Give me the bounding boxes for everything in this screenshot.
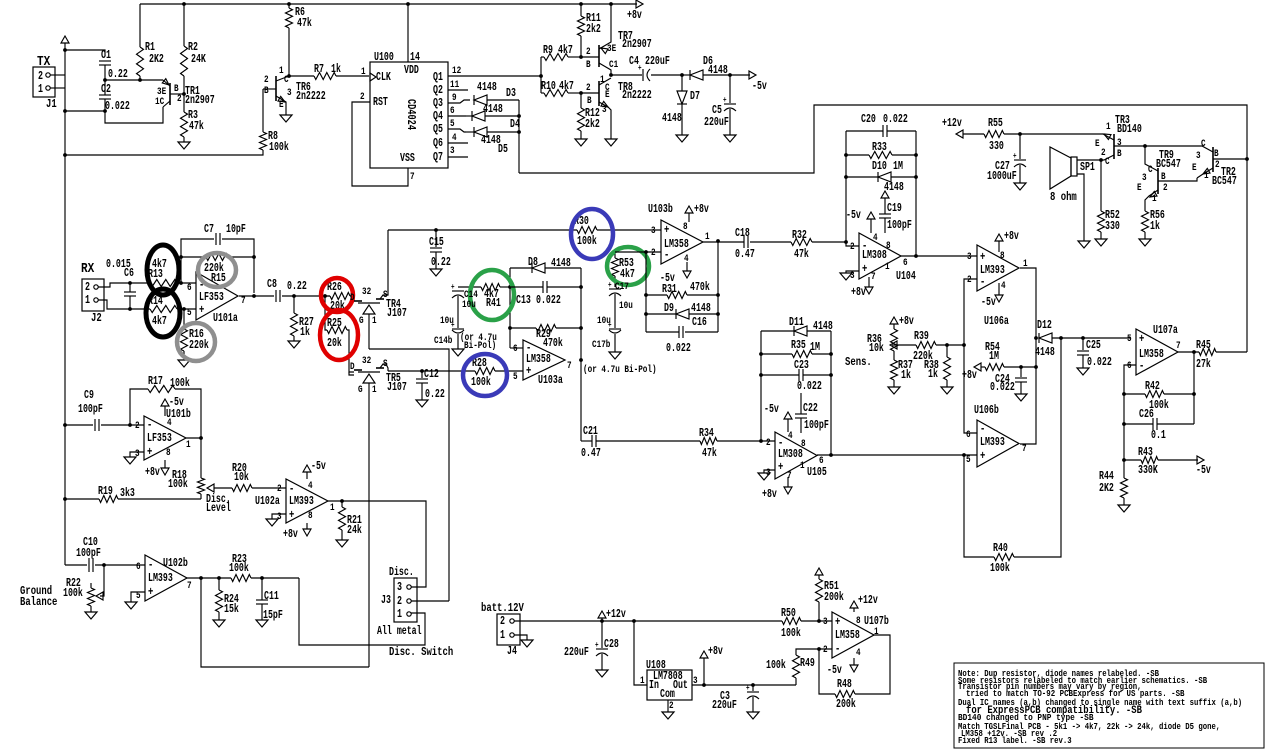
svg-text:3: 3	[967, 251, 972, 263]
junction	[728, 73, 732, 77]
svg-text:C15: C15	[429, 236, 444, 249]
resistor R2	[183, 4, 185, 46]
svg-text:+: +	[526, 364, 531, 378]
svg-text:200k: 200k	[824, 591, 844, 604]
ground C25	[1077, 368, 1089, 375]
potentiometer R18	[198, 478, 205, 494]
svg-text:5: 5	[450, 118, 455, 130]
resistor R16	[183, 309, 185, 329]
svg-text:TX: TX	[37, 55, 51, 70]
svg-text:1: 1	[1106, 121, 1111, 133]
transistor TR5 J107	[349, 372, 354, 375]
svg-text:C: C	[284, 74, 289, 86]
svg-text:1: 1	[85, 294, 90, 307]
svg-text:LM393: LM393	[289, 495, 314, 508]
op-amp U101a LF353	[196, 272, 238, 320]
wire emitter node	[105, 79, 163, 81]
svg-text:J107: J107	[387, 307, 407, 320]
capacitor C2	[99, 94, 111, 96]
svg-text:3: 3	[602, 104, 607, 116]
svg-text:B: B	[1117, 148, 1122, 160]
junction	[579, 358, 583, 362]
svg-text:1k: 1k	[300, 326, 310, 339]
resistor R38	[946, 345, 948, 357]
svg-text:U104: U104	[896, 270, 916, 283]
ground R16	[178, 360, 190, 367]
capacitor C10	[65, 564, 87, 566]
highlight ellipse gray R16	[177, 323, 215, 361]
highlight ellipse green R41	[470, 270, 514, 320]
svg-text:+8v: +8v	[851, 286, 866, 299]
junction	[644, 250, 648, 254]
svg-text:-: -	[289, 482, 294, 496]
ground TR8	[605, 139, 617, 146]
svg-text:1: 1	[38, 83, 43, 96]
svg-text:R32: R32	[792, 229, 807, 242]
svg-text:8: 8	[856, 615, 861, 627]
svg-text:CD4024: CD4024	[404, 99, 417, 130]
ground D7	[676, 135, 688, 142]
power -5v U102a	[306, 472, 308, 479]
op-amp U106a LM393	[977, 245, 1019, 291]
junction	[63, 48, 67, 52]
junction	[962, 343, 966, 347]
junction	[508, 285, 512, 289]
op-amp U107a LM358	[1136, 329, 1178, 375]
svg-text:100k: 100k	[781, 627, 801, 640]
regulator U108 LM7808	[634, 621, 647, 685]
svg-text:4k7: 4k7	[558, 44, 573, 57]
wire RX pin2	[98, 283, 150, 287]
svg-text:4: 4	[856, 647, 861, 659]
diode D7	[681, 75, 683, 91]
diode D10	[846, 176, 878, 178]
svg-text:C28: C28	[604, 638, 619, 651]
feedback rail right U105	[830, 331, 832, 455]
svg-text:U106a: U106a	[984, 315, 1009, 328]
transistor TR4 J107	[354, 300, 362, 302]
feedback rail right U107a	[1193, 352, 1195, 424]
wire U107a out	[1178, 351, 1199, 353]
svg-text:3: 3	[450, 145, 455, 157]
svg-text:R50: R50	[781, 607, 796, 620]
junction	[1245, 157, 1249, 161]
ground U108	[667, 700, 669, 712]
junction	[287, 2, 291, 6]
resistor R6	[288, 4, 290, 8]
resistor R7	[289, 75, 314, 77]
svg-text:+8v: +8v	[1004, 230, 1019, 243]
wire U102a out	[328, 501, 426, 587]
svg-text:batt.12V: batt.12V	[481, 601, 524, 615]
svg-text:3: 3	[823, 616, 828, 628]
svg-text:+: +	[147, 445, 152, 459]
svg-text:100k: 100k	[168, 478, 188, 491]
svg-text:8: 8	[1000, 250, 1005, 262]
svg-text:1: 1	[874, 626, 879, 638]
junction	[103, 109, 107, 113]
junction	[579, 285, 583, 289]
svg-text:+: +	[608, 281, 612, 290]
svg-text:3: 3	[287, 87, 292, 99]
svg-text:2n2222: 2n2222	[622, 89, 652, 102]
junction	[517, 114, 521, 118]
svg-text:1000uF: 1000uF	[987, 170, 1017, 183]
svg-text:4k7: 4k7	[620, 268, 635, 281]
svg-text:C4: C4	[629, 55, 639, 68]
power rail +8v top	[140, 3, 637, 5]
ground R3	[178, 142, 190, 149]
resistor R31	[646, 294, 667, 296]
svg-text:1: 1	[885, 261, 890, 273]
feedback rail right U103b	[717, 241, 719, 332]
svg-text:1: 1	[372, 384, 377, 396]
svg-text:-: -	[148, 558, 153, 572]
ground J4 pin1	[514, 635, 527, 640]
transistor TR3 BD140	[1113, 134, 1115, 159]
svg-text:VDD: VDD	[404, 64, 419, 77]
ground R27	[288, 341, 300, 348]
resistor R29	[510, 327, 536, 329]
svg-text:Bi-Pol): Bi-Pol)	[464, 340, 496, 352]
svg-text:4: 4	[684, 253, 689, 265]
resistor R27	[293, 296, 295, 313]
ground U101b pin3	[130, 452, 144, 457]
op-amp U105 LM308	[775, 432, 817, 479]
resistor R8	[262, 89, 264, 132]
junction	[199, 436, 203, 440]
capacitor C14b	[452, 328, 464, 330]
svg-text:10k: 10k	[869, 342, 884, 355]
diode D3	[473, 95, 475, 105]
ground R12	[575, 139, 587, 146]
svg-text:11: 11	[450, 79, 459, 91]
svg-text:3: 3	[1142, 172, 1147, 184]
resistor R54	[974, 363, 981, 371]
svg-text:-: -	[147, 418, 152, 432]
svg-text:7: 7	[1176, 340, 1181, 352]
ground R21	[336, 540, 348, 547]
svg-text:+: +	[148, 585, 153, 599]
wire SP1 bottom	[1077, 174, 1084, 241]
wire U103b out	[703, 241, 744, 243]
svg-text:330: 330	[989, 140, 1004, 153]
wire R53 to pin2	[615, 251, 661, 253]
junction	[844, 175, 848, 179]
junction	[1081, 336, 1085, 340]
svg-text:C: C	[1201, 138, 1206, 150]
power arrow left rail	[61, 36, 69, 43]
svg-text:+: +	[664, 223, 669, 237]
svg-text:R41: R41	[486, 297, 501, 310]
wire U104 out	[901, 255, 977, 257]
resistor R50	[782, 618, 801, 625]
ground C27	[1014, 183, 1026, 190]
svg-text:C19: C19	[887, 202, 902, 215]
resistor R25	[325, 296, 327, 330]
svg-text:+: +	[595, 641, 599, 650]
ground R38	[941, 387, 953, 394]
svg-text:4148: 4148	[1035, 346, 1055, 359]
junction	[914, 153, 918, 157]
svg-text:Disc.: Disc.	[389, 566, 414, 579]
svg-text:2: 2	[177, 93, 182, 105]
svg-text:1: 1	[186, 439, 191, 451]
svg-text:0.47: 0.47	[735, 248, 755, 261]
svg-text:J107: J107	[387, 381, 407, 394]
svg-text:24K: 24K	[191, 53, 206, 66]
svg-text:R39: R39	[914, 330, 929, 343]
svg-text:R45: R45	[1196, 339, 1211, 352]
svg-text:+8v: +8v	[899, 315, 914, 328]
svg-text:1M: 1M	[989, 350, 999, 363]
svg-text:CLK: CLK	[376, 71, 391, 84]
resistor R23	[231, 575, 251, 582]
junction	[829, 453, 833, 457]
ground C3	[747, 712, 759, 719]
svg-text:-5v: -5v	[846, 209, 861, 222]
wire C2 to TR1 collector	[105, 107, 163, 123]
ground R37	[888, 387, 900, 394]
power -5v U107b	[853, 658, 855, 665]
connector J3 Disc switch	[394, 578, 417, 622]
junction	[252, 294, 256, 298]
svg-text:U100: U100	[374, 51, 394, 64]
junction	[323, 294, 327, 298]
svg-text:+8v: +8v	[762, 488, 777, 501]
svg-text:+12v: +12v	[606, 608, 626, 621]
svg-text:3: 3	[277, 511, 282, 523]
svg-text:2: 2	[823, 644, 828, 656]
svg-text:10u: 10u	[597, 315, 611, 327]
diode D8	[510, 267, 532, 269]
svg-text:C22: C22	[803, 402, 818, 415]
svg-text:2: 2	[586, 82, 591, 94]
op-amp U103a LM358	[523, 340, 565, 380]
junction	[600, 619, 604, 623]
svg-text:1: 1	[372, 315, 377, 327]
power -5v U101b	[164, 406, 166, 416]
svg-text:7: 7	[187, 580, 192, 592]
ground C28	[596, 670, 608, 677]
svg-text:0.022: 0.022	[1087, 356, 1112, 369]
highlight ellipse green R53	[607, 247, 649, 285]
svg-text:4k7: 4k7	[559, 80, 574, 93]
resistor R21	[341, 501, 343, 507]
svg-text:4148: 4148	[691, 302, 711, 315]
svg-text:G: G	[358, 384, 363, 396]
wire R13 to pin6	[177, 282, 196, 284]
svg-text:0.022: 0.022	[990, 381, 1015, 394]
junction	[829, 352, 833, 356]
capacitor C23	[761, 374, 799, 376]
svg-text:-: -	[664, 248, 669, 262]
svg-text:2: 2	[135, 420, 140, 432]
svg-text:15k: 15k	[224, 603, 239, 616]
svg-text:VSS: VSS	[400, 152, 415, 165]
svg-text:R49: R49	[800, 657, 815, 670]
op-amp U103b LM358	[661, 220, 703, 264]
svg-text:330: 330	[1105, 220, 1120, 233]
svg-text:0.022: 0.022	[883, 113, 908, 126]
wire RX pin1	[98, 300, 150, 309]
resistor R48	[819, 649, 835, 694]
wire VDD to +8v	[407, 4, 409, 62]
svg-text:6: 6	[966, 429, 971, 441]
svg-text:C17: C17	[615, 281, 629, 293]
svg-text:3k3: 3k3	[120, 487, 135, 500]
resistor R35	[761, 353, 792, 355]
potentiometer R36	[891, 329, 898, 351]
svg-text:0.022: 0.022	[105, 100, 130, 113]
junction	[287, 74, 291, 78]
svg-text:3: 3	[1196, 150, 1201, 162]
svg-text:Q7: Q7	[433, 151, 443, 164]
resistor R12	[580, 93, 582, 108]
feedback rail right U103a	[580, 268, 582, 441]
resistor R19	[65, 498, 99, 500]
wire U103a pin6	[510, 347, 523, 349]
svg-text:100pF: 100pF	[804, 419, 829, 432]
pin Q1	[448, 75, 541, 77]
op-amp U102b LM393	[145, 555, 187, 601]
svg-text:2n2222: 2n2222	[296, 90, 326, 103]
junction	[829, 373, 833, 377]
ground TR6	[280, 115, 292, 122]
junction	[1192, 392, 1196, 396]
transistor TR8 2n2222	[598, 81, 600, 106]
svg-text:+: +	[778, 460, 783, 474]
svg-text:47k: 47k	[702, 447, 717, 460]
svg-text:4: 4	[308, 480, 313, 492]
svg-text:1k: 1k	[331, 63, 341, 76]
svg-text:1: 1	[1204, 170, 1209, 182]
op-amp U102a LM393	[286, 479, 328, 523]
svg-text:U101a: U101a	[213, 312, 238, 325]
svg-text:100k: 100k	[170, 377, 190, 390]
connector J2 RX	[82, 279, 104, 311]
svg-text:5: 5	[1127, 333, 1132, 345]
svg-text:47k: 47k	[297, 17, 312, 30]
svg-text:1: 1	[1152, 193, 1157, 205]
svg-text:C21: C21	[583, 425, 598, 438]
svg-text:6: 6	[136, 561, 141, 573]
svg-text:R48: R48	[837, 678, 852, 691]
svg-text:U103b: U103b	[648, 203, 673, 216]
power -5v U103b	[686, 262, 688, 271]
wire U101a out	[239, 295, 274, 297]
wire common to C2	[65, 110, 105, 112]
svg-text:LM393: LM393	[148, 572, 173, 585]
junction	[63, 423, 67, 427]
svg-text:2: 2	[500, 615, 505, 628]
diode D11	[761, 330, 794, 332]
wire TX pin2	[50, 74, 65, 76]
ground R44	[1118, 505, 1130, 512]
ground C24	[1015, 394, 1027, 401]
junction	[1122, 392, 1126, 396]
wire R23 to J3 pin1	[299, 578, 425, 645]
svg-text:0.22: 0.22	[108, 68, 128, 81]
transistor TR1 2n2907	[169, 83, 171, 105]
junction	[1143, 144, 1147, 148]
svg-text:+: +	[746, 684, 750, 693]
junction	[579, 91, 583, 95]
svg-text:32: 32	[362, 355, 371, 367]
svg-text:4: 4	[873, 232, 878, 244]
junction	[716, 239, 720, 243]
svg-text:1: 1	[640, 675, 645, 687]
wire C2 bottom	[104, 99, 106, 111]
junction	[914, 254, 918, 258]
power +8v U102a	[306, 523, 308, 529]
svg-text:R31: R31	[662, 283, 677, 296]
svg-text:Q3: Q3	[433, 97, 443, 110]
highlight ellipse blue R30	[571, 209, 613, 259]
svg-text:Q5: Q5	[433, 123, 443, 136]
svg-text:12: 12	[452, 65, 461, 77]
capacitor C19	[881, 191, 889, 198]
resistor R20	[232, 485, 252, 492]
svg-text:1k: 1k	[1150, 220, 1160, 233]
capacitor C17	[609, 288, 621, 290]
capacitor C3	[752, 685, 754, 691]
pin Q6	[448, 142, 468, 144]
svg-text:LM308: LM308	[862, 249, 887, 262]
highlight ellipse blue R28	[463, 354, 507, 396]
svg-text:2n2907: 2n2907	[185, 94, 215, 107]
svg-text:C: C	[1148, 164, 1153, 176]
wire Q1 node	[540, 57, 542, 93]
svg-text:C9: C9	[84, 389, 94, 402]
svg-text:8 ohm: 8 ohm	[1050, 190, 1077, 204]
svg-text:220uF: 220uF	[645, 55, 670, 68]
svg-text:1: 1	[600, 74, 605, 86]
svg-text:5: 5	[513, 371, 518, 383]
svg-text:470k: 470k	[690, 281, 710, 294]
speaker SP1	[1050, 147, 1071, 189]
svg-text:Q2: Q2	[433, 84, 443, 97]
svg-text:2K2: 2K2	[149, 53, 164, 66]
svg-text:-: -	[980, 275, 985, 289]
svg-text:(or 4.7u Bi-Pol): (or 4.7u Bi-Pol)	[583, 364, 657, 376]
svg-text:4148: 4148	[551, 257, 571, 270]
svg-text:2: 2	[766, 437, 771, 449]
junction	[182, 2, 186, 6]
resistor R26	[330, 293, 350, 300]
resistor R52	[1100, 160, 1102, 211]
potentiometer R22	[100, 565, 104, 596]
resistor R9	[544, 54, 568, 61]
svg-text:+: +	[980, 250, 985, 264]
svg-text:C1: C1	[609, 59, 618, 71]
capacitor C4	[611, 74, 642, 76]
svg-text:BC547: BC547	[1212, 175, 1237, 188]
transistor TR9 BC547	[1145, 146, 1158, 171]
svg-text:Disc. Switch: Disc. Switch	[389, 645, 453, 659]
svg-text:2: 2	[1163, 182, 1168, 194]
svg-text:D9: D9	[664, 302, 674, 315]
feedback rail left U103a	[509, 268, 511, 348]
feedback rail left U103b	[645, 252, 647, 332]
svg-text:4k7: 4k7	[152, 315, 167, 328]
pin Q2	[448, 89, 468, 91]
capacitor C13	[542, 281, 544, 293]
wire out to TR5 gate	[201, 578, 369, 667]
junction	[945, 343, 949, 347]
svg-text:8: 8	[166, 447, 171, 459]
note box	[954, 663, 1264, 748]
